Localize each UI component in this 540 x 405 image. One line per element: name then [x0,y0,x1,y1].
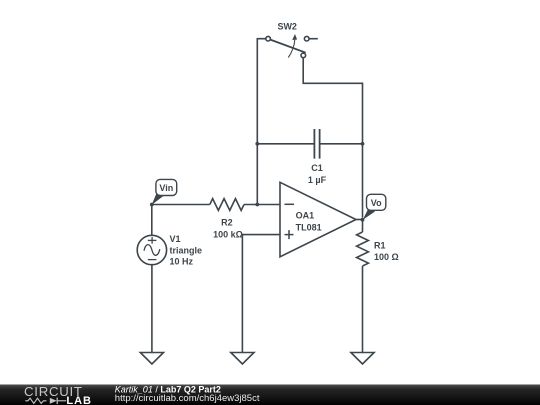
svg-text:100 Ω: 100 Ω [374,252,399,262]
svg-text:Vo: Vo [371,198,382,208]
svg-text:V1: V1 [170,234,181,244]
svg-text:Vin: Vin [159,183,173,193]
svg-text:TL081: TL081 [296,223,322,233]
svg-text:triangle: triangle [170,245,203,255]
svg-text:SW2: SW2 [277,21,297,31]
svg-text:100 kΩ: 100 kΩ [213,229,243,239]
svg-text:http://circuitlab.com/ch6j4ew3: http://circuitlab.com/ch6j4ew3j85ct [115,393,260,404]
svg-text:LAB: LAB [66,395,92,405]
svg-text:OA1: OA1 [296,210,315,220]
svg-text:C1: C1 [311,163,323,173]
svg-text:1 µF: 1 µF [308,175,327,185]
svg-text:R2: R2 [221,218,233,228]
svg-text:10 Hz: 10 Hz [170,257,194,267]
svg-text:R1: R1 [374,240,386,250]
